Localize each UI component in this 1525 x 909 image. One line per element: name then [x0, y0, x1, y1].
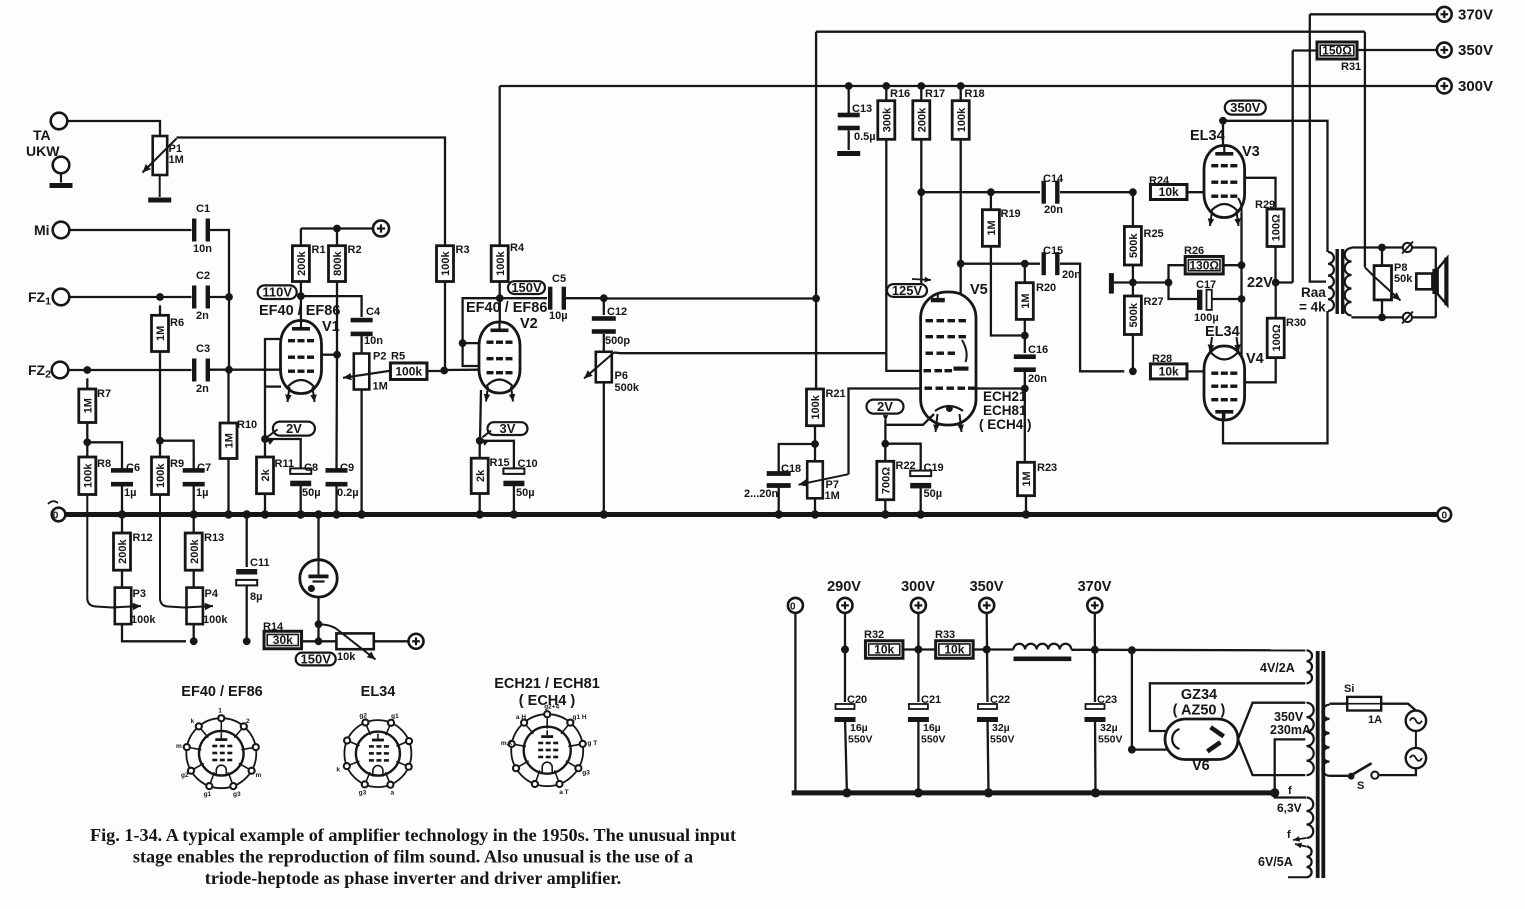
node 350V	[983, 646, 991, 654]
node P5 wiper tap	[315, 620, 323, 628]
wire P6 to bus	[603, 382, 605, 514]
wire grid node to V2	[444, 369, 479, 372]
wire R16 to V5 g1	[886, 139, 920, 371]
svg-text:200k: 200k	[189, 538, 201, 563]
wire choke to 370V node	[1071, 649, 1095, 651]
wire 350V down	[986, 613, 989, 702]
wire screen node into tube	[499, 298, 501, 323]
bus junction	[332, 510, 340, 518]
svg-text:g1 H: g1 H	[572, 714, 586, 721]
wire R7 to R8 node	[86, 423, 88, 443]
capacitor C16 20n	[1014, 354, 1036, 372]
capacitor C9 0.2u	[326, 468, 348, 486]
resistor R32 10k	[865, 641, 903, 659]
node P8 bottom	[1378, 314, 1386, 322]
svg-text:0: 0	[1442, 511, 1448, 522]
node R2 top	[333, 225, 341, 233]
node R26-C17 left	[1165, 279, 1173, 287]
wire feedback from secondary	[1364, 32, 1366, 268]
wire P6 wiper to V5	[614, 351, 886, 354]
wire R23 to bus	[1025, 496, 1027, 515]
svg-text:R2: R2	[348, 244, 362, 256]
svg-text:2n: 2n	[196, 310, 209, 322]
svg-text:C23: C23	[1097, 694, 1117, 706]
wire 370V to center tap	[1310, 14, 1326, 281]
bus junction	[224, 510, 232, 518]
svg-text:V2: V2	[520, 316, 538, 332]
wire V5 cathode	[885, 414, 934, 425]
wire P1 to ground	[159, 175, 161, 197]
wire node to C7	[160, 441, 194, 469]
wire filament to V6	[1132, 748, 1168, 750]
wire R8 to P3 wiper	[87, 495, 112, 608]
svg-text:2n: 2n	[196, 383, 209, 395]
node R17 output	[917, 188, 925, 196]
svg-text:300V: 300V	[1458, 78, 1493, 95]
svg-text:a H: a H	[516, 714, 526, 721]
PS rail junction	[1091, 788, 1100, 797]
wire node to C6	[87, 442, 122, 469]
tube V6 GZ34	[1165, 719, 1238, 760]
resistor R25 500k	[1132, 192, 1134, 226]
node filament top	[1128, 646, 1136, 654]
tube V3 EL34	[1204, 146, 1245, 218]
svg-text:2V: 2V	[877, 399, 893, 414]
wire C23 to rail	[1094, 718, 1097, 793]
wire V1 g3 stub	[265, 339, 281, 387]
capacitor C20 16u 550V	[835, 704, 856, 722]
svg-text:C13: C13	[852, 103, 872, 115]
wire C17 right	[1212, 298, 1242, 300]
wire chassis to node	[1114, 281, 1169, 283]
svg-text:g3: g3	[582, 770, 590, 777]
wire C16 to R23	[1024, 372, 1026, 462]
svg-text:1µ: 1µ	[196, 487, 208, 499]
svg-text:= 4k: = 4k	[1299, 300, 1326, 315]
bus junction	[357, 510, 365, 518]
wire secondary top	[1352, 246, 1436, 248]
svg-text:( ECH4 ): ( ECH4 )	[979, 417, 1032, 432]
node R14-P5	[315, 637, 323, 645]
pinout EF40/EF86	[176, 708, 262, 798]
wire fuse to AC	[1381, 704, 1416, 711]
bus junction	[261, 510, 269, 518]
svg-text:g3: g3	[233, 791, 241, 798]
svg-text:R17: R17	[925, 88, 945, 100]
svg-text:350V: 350V	[970, 579, 1004, 595]
svg-text:m: m	[256, 772, 262, 779]
heater arrows V5	[936, 414, 938, 432]
svg-text:350V: 350V	[1230, 100, 1261, 115]
wire primary bottom to switch	[1330, 775, 1349, 777]
winding 4V/2A	[1307, 650, 1313, 683]
svg-text:550V: 550V	[848, 734, 873, 746]
wire V3 g2 to R29	[1245, 178, 1276, 209]
resistor R27 500k	[1132, 283, 1134, 297]
capacitor C8 50u	[290, 468, 311, 486]
resistor R2 800k	[336, 229, 338, 246]
wire P2 to bus	[360, 390, 362, 515]
svg-text:R14: R14	[263, 621, 284, 633]
svg-text:100k: 100k	[440, 250, 452, 275]
wire V1 plate out	[322, 354, 338, 356]
wire switch to AC	[1379, 768, 1416, 775]
svg-text:1M: 1M	[1020, 293, 1032, 308]
wire C14 to R24 node	[1060, 191, 1133, 193]
terminal +370V	[1437, 7, 1452, 22]
oval 3V	[488, 421, 528, 436]
transformer secondary	[1345, 248, 1352, 316]
wire screen to C4	[301, 296, 362, 317]
node R16 top	[882, 82, 890, 90]
svg-text:ECH81: ECH81	[983, 403, 1027, 418]
wire R4 to screen node	[499, 282, 501, 297]
bus junction	[297, 510, 305, 518]
electrolytic capacitor	[317, 515, 319, 561]
wire cap to P5 line	[317, 597, 319, 641]
wire cathode node to C8	[265, 439, 301, 469]
terminal FZ1	[53, 289, 70, 306]
svg-text:V5: V5	[970, 282, 988, 298]
svg-text:C12: C12	[607, 306, 627, 318]
node feedback junction	[812, 295, 820, 303]
svg-text:C3: C3	[196, 343, 210, 355]
resistor R13 200k	[193, 515, 195, 534]
wire 300V down	[917, 613, 919, 702]
node V3 plate top	[1219, 117, 1227, 125]
svg-text:300V: 300V	[901, 579, 935, 595]
svg-text:4V/2A: 4V/2A	[1260, 661, 1295, 675]
svg-text:C1: C1	[196, 203, 210, 215]
svg-text:EL34: EL34	[1205, 324, 1240, 340]
svg-text:370V: 370V	[1458, 7, 1493, 24]
svg-text:100k: 100k	[83, 463, 95, 488]
AC source lower	[1406, 748, 1426, 768]
node V1 cathode	[261, 435, 269, 443]
wire C11 to R14 line	[246, 585, 248, 641]
AC source upper	[1406, 711, 1426, 731]
wire g3 stub	[463, 342, 480, 344]
svg-text:GZ34: GZ34	[1181, 687, 1217, 703]
wire P4 to R14 line	[193, 624, 195, 641]
capacitor C2 2n	[192, 286, 210, 309]
wire V2 plate to C5	[500, 297, 547, 299]
svg-text:20n: 20n	[1044, 204, 1063, 216]
bus junction	[510, 510, 518, 518]
svg-text:10k: 10k	[874, 643, 894, 657]
winding HV 350V	[1307, 703, 1314, 775]
svg-text:3V: 3V	[500, 421, 516, 436]
node rail end	[1270, 788, 1279, 797]
svg-text:1M: 1M	[825, 490, 840, 502]
wire R2 to plate node	[336, 282, 338, 355]
svg-text:C17: C17	[1196, 279, 1216, 291]
wire cathode down	[264, 387, 266, 439]
ground under P1	[148, 198, 171, 203]
node C1-C2	[225, 293, 233, 301]
svg-text:0: 0	[790, 602, 796, 613]
svg-text:R18: R18	[965, 88, 985, 100]
svg-text:f: f	[1288, 785, 1292, 797]
svg-text:1A: 1A	[1368, 714, 1382, 726]
speaker	[1416, 274, 1432, 290]
wire R27 to R28 node	[1132, 335, 1134, 372]
wire P5 to terminal	[374, 640, 409, 642]
svg-text:C7: C7	[197, 462, 211, 474]
svg-text:R9: R9	[170, 458, 184, 470]
svg-text:V6: V6	[1192, 758, 1210, 774]
terminal UKW	[53, 157, 70, 174]
bus junction	[314, 510, 322, 518]
wire primary top to fuse	[1330, 703, 1348, 705]
capacitor C10 50u	[503, 468, 524, 486]
svg-text:1: 1	[218, 708, 222, 715]
wire cathode to C19	[885, 444, 920, 471]
resistor R22 700ohm	[884, 444, 886, 462]
wire V3 grid	[1187, 191, 1204, 193]
node R7 top	[83, 366, 91, 374]
svg-text:200k: 200k	[117, 538, 129, 563]
capacitor C5 10u	[548, 287, 566, 310]
node R7-R8-C6	[83, 438, 91, 446]
oval 2V V5	[867, 399, 904, 414]
wire g3 leg down	[463, 343, 480, 366]
ground C13	[837, 151, 860, 156]
svg-text:200k: 200k	[917, 107, 929, 132]
svg-text:Mi: Mi	[34, 222, 50, 238]
svg-text:P2: P2	[373, 351, 386, 363]
node C11 bottom	[243, 637, 251, 645]
svg-text:700Ω: 700Ω	[881, 467, 893, 494]
wire FZ2 to C3	[68, 369, 191, 371]
svg-text:R20: R20	[1036, 282, 1056, 294]
wire R19 to R20 node	[991, 246, 1025, 335]
svg-text:500k: 500k	[615, 382, 640, 394]
svg-text:C22: C22	[990, 694, 1010, 706]
svg-text:100k: 100k	[131, 614, 156, 626]
resistor R16 300k	[885, 86, 887, 101]
wire 22V to 350V leg	[1276, 281, 1293, 283]
resistor R21 100k	[807, 389, 824, 426]
pinout ECH21	[501, 704, 597, 796]
node R6 top	[156, 293, 164, 301]
capacitor C19 50u	[910, 471, 931, 489]
svg-text:100k: 100k	[956, 107, 968, 132]
pinout EL34	[336, 713, 413, 797]
svg-text:C9: C9	[340, 462, 354, 474]
wire speaker right	[1435, 248, 1437, 318]
svg-text:100Ω: 100Ω	[1271, 324, 1283, 351]
svg-text:R19: R19	[1001, 208, 1021, 220]
svg-text:1M: 1M	[155, 326, 167, 341]
wire node down	[228, 297, 230, 366]
svg-text:C8: C8	[304, 462, 318, 474]
oval 150V bottom	[296, 652, 336, 667]
wire R21 to node	[814, 426, 816, 444]
terminal +300V	[1437, 79, 1452, 94]
tube V2 EF40/EF86	[479, 322, 520, 393]
wire 350V rail right	[1356, 49, 1437, 51]
svg-text:500k: 500k	[1128, 233, 1140, 258]
wire C1 to node	[210, 230, 229, 294]
svg-text:550V: 550V	[1098, 734, 1123, 746]
wire R1 to V1 top	[300, 282, 302, 322]
terminal + P5	[409, 634, 424, 649]
svg-text:150V: 150V	[301, 652, 332, 667]
wire screen left leg	[463, 298, 500, 343]
node R25-R27	[1129, 279, 1137, 287]
svg-text:100µ: 100µ	[1194, 312, 1219, 324]
wire rail to 6.3V winding	[1275, 793, 1306, 798]
potentiometer P8 50k	[1381, 248, 1383, 266]
wire R6 to R9 node	[159, 352, 161, 441]
oval 2V V1	[273, 421, 315, 436]
oval 110V	[258, 285, 297, 300]
wire V6 plates fan bottom	[1238, 739, 1305, 775]
bus junction	[811, 510, 819, 518]
node V5 cathode	[881, 440, 889, 448]
svg-text:triode-heptode as phase invert: triode-heptode as phase inverter and dri…	[205, 868, 621, 888]
svg-text:370V: 370V	[1078, 579, 1112, 595]
svg-text:Si: Si	[1344, 683, 1354, 695]
winding 6V/5A	[1307, 847, 1312, 878]
svg-text:2V: 2V	[286, 421, 302, 436]
capacitor C7 1u	[183, 468, 205, 486]
heater arrows V4	[1210, 337, 1212, 352]
wire V1 cathode out	[265, 385, 281, 387]
svg-text:g T: g T	[588, 740, 598, 747]
svg-text:C4: C4	[366, 306, 381, 318]
svg-text:110V: 110V	[262, 285, 292, 300]
wire 290V down	[844, 613, 846, 702]
wire C4 to P2	[360, 336, 362, 354]
svg-text:32µ: 32µ	[992, 722, 1010, 734]
node C3 out	[225, 366, 233, 374]
resistor R18 100k	[960, 86, 962, 101]
resistor R4 100k	[491, 246, 508, 282]
svg-text:C14: C14	[1043, 173, 1064, 185]
transformer core	[1336, 249, 1339, 314]
svg-text:C11: C11	[250, 557, 270, 569]
svg-text:10k: 10k	[944, 643, 964, 657]
svg-text:32µ: 32µ	[1100, 722, 1118, 734]
winding mains primary	[1322, 705, 1329, 776]
wire R3 bottom	[444, 282, 446, 371]
node P8 top	[1378, 244, 1386, 252]
node 300V	[914, 646, 922, 654]
capacitor C15 20n	[1042, 252, 1060, 275]
svg-text:f: f	[1287, 829, 1291, 841]
mains transformer core	[1316, 651, 1320, 878]
svg-text:R8: R8	[97, 458, 111, 470]
wire C10 to bus	[513, 482, 515, 515]
resistor R7 1M	[86, 378, 88, 389]
wire 370V down	[1094, 613, 1096, 702]
svg-text:R26: R26	[1184, 245, 1204, 257]
svg-text:R16: R16	[890, 88, 910, 100]
bus junction	[190, 510, 198, 518]
wire R5 to grid node	[427, 370, 444, 372]
node R26 right	[1238, 261, 1246, 269]
tube V4 EL34	[1204, 346, 1245, 420]
svg-text:k: k	[336, 767, 340, 774]
svg-text:R3: R3	[456, 244, 470, 256]
PS rail junction	[984, 788, 993, 797]
svg-text:10n: 10n	[364, 335, 383, 347]
svg-text:2: 2	[246, 718, 250, 725]
svg-text:g2: g2	[181, 772, 189, 779]
choke	[1013, 644, 1071, 650]
svg-text:50µ: 50µ	[924, 488, 943, 500]
node R20 top	[1021, 260, 1029, 268]
chassis bar 22V line	[1109, 273, 1114, 294]
svg-text:10n: 10n	[193, 243, 212, 255]
svg-text:EF40 / EF86: EF40 / EF86	[466, 300, 547, 316]
svg-text:V4: V4	[1246, 351, 1264, 367]
potentiometer P1 1M	[153, 136, 168, 175]
svg-text:TA: TA	[33, 127, 51, 143]
svg-text:100k: 100k	[203, 614, 228, 626]
svg-text:0.5µ: 0.5µ	[854, 131, 876, 143]
bus junction	[600, 510, 608, 518]
oval 125V	[887, 283, 927, 298]
svg-text:2k: 2k	[260, 468, 272, 481]
wire C5 to node	[566, 297, 604, 299]
node P4 bottom	[190, 637, 198, 645]
resistor R12 200k	[121, 515, 123, 534]
wire C15 to R28 node	[1060, 264, 1124, 372]
svg-text:100k: 100k	[155, 463, 167, 488]
resistor R10 1M	[227, 370, 229, 423]
svg-text:150Ω: 150Ω	[1322, 44, 1352, 58]
wire feedback vertical	[815, 32, 817, 389]
capacitor C4 10n	[351, 318, 373, 336]
resistor R5 100k	[390, 363, 427, 380]
terminal + V1 supply	[373, 221, 389, 237]
wire R17 to V5 plate	[920, 139, 922, 293]
wire R30 to V4 g2	[1238, 358, 1276, 383]
svg-text:6,3V: 6,3V	[1277, 801, 1302, 815]
wire P1 wiper to R3	[177, 138, 446, 246]
wire C21 to rail	[917, 718, 919, 793]
svg-text:150V: 150V	[511, 280, 542, 295]
svg-text:C21: C21	[921, 694, 941, 706]
node R6-R9-C7	[156, 437, 164, 445]
wire feedback top	[816, 31, 1365, 33]
wire P7 to bus	[814, 498, 816, 514]
svg-text:0.2µ: 0.2µ	[337, 487, 359, 499]
svg-text:UKW: UKW	[26, 143, 60, 159]
jack top	[1403, 243, 1412, 252]
svg-text:800k: 800k	[332, 250, 344, 275]
svg-text:1M: 1M	[83, 398, 95, 413]
wire 350V rail to R31 left	[1293, 49, 1317, 51]
svg-text:R23: R23	[1037, 462, 1057, 474]
wire V3 plate to primary	[1223, 121, 1328, 252]
resistor R3 100k	[437, 246, 454, 282]
wire R11 to bus	[264, 494, 266, 515]
svg-text:20n: 20n	[1028, 373, 1047, 385]
capacitor C3 2n	[192, 359, 210, 382]
resistor R1 200k	[300, 229, 302, 246]
wire V6 plates fan top	[1238, 703, 1305, 740]
svg-text:20n: 20n	[1062, 269, 1081, 281]
wire R20 to C16	[1024, 319, 1026, 353]
svg-text:500p: 500p	[605, 335, 630, 347]
resistor R17 200k	[920, 86, 922, 101]
bus junction	[917, 510, 925, 518]
node R17 top	[917, 82, 925, 90]
